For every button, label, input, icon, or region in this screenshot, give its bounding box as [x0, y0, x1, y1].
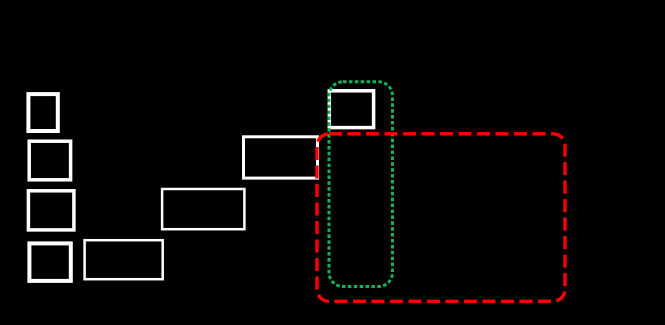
- block B1 (top of left stack): [28, 94, 57, 131]
- block B6 (middle step): [162, 189, 244, 229]
- block B2 (left stack, second): [29, 141, 70, 180]
- block B5 (bottom row, right of B4): [85, 240, 163, 279]
- block B8 (inside green container): [329, 91, 373, 128]
- block B7 (upper step, left of red region): [244, 137, 318, 178]
- green dotted container: [329, 82, 393, 287]
- red dashed container: [317, 134, 565, 301]
- block B3 (left stack, third): [28, 191, 74, 230]
- block B4 (left stack, bottom): [29, 243, 70, 281]
